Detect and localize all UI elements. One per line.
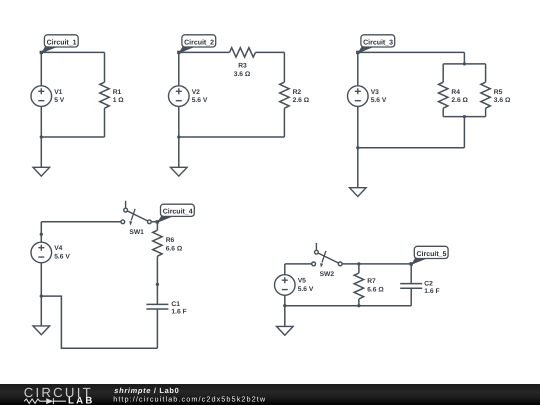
- svg-text:http://circuitlab.com/c2dx5b5k: http://circuitlab.com/c2dx5b5k2b2tw: [113, 395, 266, 404]
- node label Circuit_5: [410, 246, 449, 265]
- wire: circuit3 bottom: [358, 147, 465, 149]
- junction circuit2 bottom-left: [177, 135, 180, 138]
- junction circuit4 mid right rail: [156, 283, 159, 286]
- wire: circuit1 top: [41, 51, 104, 53]
- capacitor C1: [146, 301, 186, 316]
- wire: circuit4 left lower: [40, 263, 42, 296]
- voltage source V5: [275, 275, 314, 296]
- wire: circuit5 top-right: [342, 263, 411, 265]
- ground: [171, 167, 188, 176]
- wire: circuit5 left upper: [284, 264, 286, 275]
- wire: circuit2 left lower: [178, 106, 180, 137]
- voltage source V4: [31, 242, 70, 263]
- wire: circuit2 bottom: [179, 136, 285, 138]
- wire: R6 upper lead: [156, 222, 158, 230]
- wire: R6 to C1: [156, 256, 158, 284]
- wire: circuit3 top: [358, 51, 465, 53]
- ground: [350, 188, 367, 197]
- resistor R2: [280, 82, 310, 108]
- wire: R4 lower lead: [442, 108, 444, 116]
- node label Circuit_2: [177, 35, 216, 54]
- wire: circuit5 ground stem: [284, 306, 286, 327]
- wire: circuit4 left upper: [40, 222, 42, 242]
- node label Circuit_4: [156, 204, 195, 223]
- capacitor C2: [400, 280, 439, 295]
- logo resistor-diode glyph: [24, 399, 46, 403]
- wire: R7 lower lead: [358, 299, 360, 306]
- wire: circuit2 right upper: [283, 52, 285, 82]
- wire: circuit1 right lower: [104, 108, 106, 137]
- wire: C2 upper lead: [410, 264, 412, 284]
- resistor R4: [439, 82, 469, 108]
- wire: circuit1 bottom: [41, 136, 104, 138]
- wire: circuit2 ground stem: [178, 137, 180, 167]
- ground: [33, 167, 50, 176]
- node label Circuit_1: [40, 35, 79, 54]
- junction circuit3 bottom of parallel pair: [463, 115, 466, 118]
- junction circuit3 bottom-left: [356, 146, 359, 149]
- junction circuit4 bottom-left: [40, 294, 43, 297]
- wire: circuit2 top-right: [256, 51, 285, 53]
- wire: circuit4 switch to node: [151, 221, 157, 223]
- resistor R7: [354, 273, 384, 299]
- junction circuit5 bottom-left: [283, 304, 286, 307]
- resistor R1: [100, 82, 124, 108]
- wire: circuit3 left upper: [357, 52, 359, 85]
- wire: R5 lower lead: [485, 108, 487, 116]
- wire: circuit1 left lower: [40, 106, 42, 137]
- resistor R3: [230, 48, 256, 78]
- switch SW2: [312, 243, 342, 278]
- junction circuit3 top of parallel pair: [463, 62, 466, 65]
- junction circuit5 R7 bottom: [357, 304, 360, 307]
- wire: circuit3 drop to parallel: [463, 52, 465, 64]
- wire: R5 upper lead: [485, 64, 487, 82]
- wire: circuit2 right lower: [283, 108, 285, 137]
- resistor R6: [153, 230, 183, 256]
- junction circuit4 left rail: [40, 233, 43, 236]
- node label Circuit_3: [356, 35, 395, 54]
- wire: R7 upper lead: [358, 264, 360, 273]
- wire: circuit1 right upper: [104, 52, 106, 82]
- ground: [277, 326, 294, 335]
- wire: circuit2 left upper: [178, 52, 180, 85]
- wire: circuit3 left lower: [357, 106, 359, 147]
- wire: C2 lower lead: [410, 288, 412, 306]
- wire: circuit3 parallel top bar: [443, 63, 485, 65]
- wire: circuit1 left upper: [40, 52, 42, 85]
- wire: R4 upper lead: [442, 64, 444, 82]
- wire: circuit5 left lower: [284, 295, 286, 305]
- switch SW1: [121, 201, 151, 236]
- wire: circuit4 top-left: [41, 221, 121, 223]
- wire: circuit4 ground stem: [40, 296, 42, 326]
- wire: circuit5 top-left: [285, 263, 312, 265]
- resistor R5: [481, 82, 511, 108]
- wire: circuit5 bottom: [285, 305, 411, 307]
- svg-text:LAB: LAB: [68, 395, 95, 405]
- footer bar: [0, 384, 540, 405]
- wire: circuit2 top-left: [179, 51, 230, 53]
- wire: C1 lower lead: [156, 309, 158, 348]
- wire: circuit3 ground stem: [357, 148, 359, 188]
- ground: [33, 326, 50, 335]
- wire: circuit1 ground stem: [40, 137, 42, 167]
- junction circuit5 R7 top: [357, 262, 360, 265]
- wire: circuit3 parallel bottom bar: [443, 116, 485, 118]
- junction circuit1 bottom-left: [40, 135, 43, 138]
- wire: circuit3 right lower: [463, 117, 465, 148]
- voltage source V1: [31, 86, 65, 107]
- wire: C1 upper lead: [156, 284, 158, 304]
- voltage source V2: [169, 86, 208, 107]
- voltage source V3: [348, 86, 387, 107]
- wire: circuit4 bottom return: [41, 296, 157, 348]
